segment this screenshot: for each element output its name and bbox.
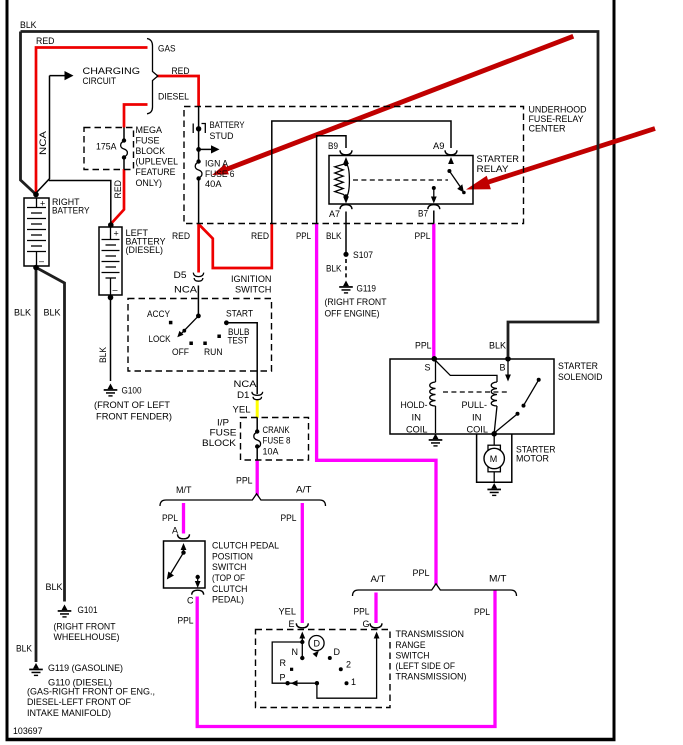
svg-text:DIESEL-LEFT FRONT OF: DIESEL-LEFT FRONT OF — [27, 697, 131, 707]
wire relay B7 stub below cup — [433, 211, 435, 224]
wire battery stud to IGN A fuse to box edge — [198, 107, 200, 161]
solenoid switch lever — [494, 378, 541, 433]
wire PPL relay B9 coil feed long run to brace 2 apex — [317, 224, 436, 586]
svg-text:175A: 175A — [96, 142, 117, 152]
relay coil — [335, 157, 350, 204]
svg-text:D1: D1 — [237, 390, 250, 400]
node pull-in coil / motor junction — [491, 431, 497, 437]
svg-text:LOCK: LOCK — [149, 334, 171, 344]
svg-text:BLK: BLK — [20, 20, 37, 30]
svg-text:B: B — [500, 363, 506, 373]
svg-text:BATTERY: BATTERY — [52, 206, 90, 216]
svg-text:103697: 103697 — [13, 726, 43, 736]
svg-text:NCA: NCA — [234, 379, 257, 389]
svg-text:BLK: BLK — [489, 341, 506, 351]
ground G100 — [104, 384, 118, 397]
svg-text:PPL: PPL — [296, 231, 311, 241]
right battery — [24, 192, 49, 271]
svg-text:CHARGING: CHARGING — [83, 66, 141, 76]
wire BLK left battery negative to G100 — [110, 298, 112, 382]
wire relay B9 feed — [317, 136, 346, 224]
wire RED top left riser and run to GAS brace — [36, 48, 148, 194]
wire PPL clutch switch C bottom run to brace 2 M/T leg — [197, 591, 495, 727]
svg-text:RED: RED — [172, 66, 190, 76]
svg-text:RED: RED — [251, 231, 269, 241]
mega fuse 175A element — [121, 128, 128, 170]
svg-text:YEL: YEL — [279, 607, 297, 617]
svg-text:B7: B7 — [418, 209, 428, 219]
clutch switch internals — [167, 543, 201, 588]
svg-text:G119 (GASOLINE): G119 (GASOLINE) — [48, 663, 123, 673]
wire NCA ignition switch input — [197, 286, 199, 316]
svg-text:PPL: PPL — [415, 231, 431, 241]
svg-text:(DIESEL): (DIESEL) — [126, 245, 164, 255]
svg-text:START: START — [226, 309, 253, 319]
svg-text:MEGA: MEGA — [136, 125, 163, 135]
svg-text:TRANSMISSION): TRANSMISSION) — [396, 672, 467, 682]
svg-text:40A: 40A — [205, 179, 222, 189]
svg-text:BLOCK: BLOCK — [136, 146, 166, 156]
transmission range switch dashed box — [256, 630, 391, 708]
wire BLK heavy branch to G101 — [37, 268, 65, 602]
branch arrow from battery stud node — [196, 145, 219, 153]
wire RED mega fuse to left battery positive — [111, 169, 124, 224]
svg-text:FUSE-RELAY: FUSE-RELAY — [529, 114, 584, 124]
svg-text:NCA: NCA — [174, 285, 197, 295]
svg-text:P: P — [280, 673, 286, 683]
svg-text:TRANSMISSION: TRANSMISSION — [396, 629, 465, 639]
range switch internals — [272, 632, 379, 699]
svg-text:R: R — [280, 658, 287, 668]
range switch terminal G — [370, 623, 382, 628]
svg-text:PPL: PPL — [236, 476, 253, 486]
svg-text:RED: RED — [113, 180, 123, 199]
svg-text:BLK: BLK — [326, 231, 342, 241]
range switch terminal E — [296, 623, 308, 628]
wire RED brace apex to battery stud entry — [157, 76, 199, 107]
svg-text:–: – — [113, 285, 118, 295]
svg-text:ONLY): ONLY) — [136, 178, 163, 188]
svg-text:STARTER: STARTER — [558, 361, 598, 371]
svg-text:CIRCUIT: CIRCUIT — [83, 76, 117, 86]
svg-text:(RIGHT FRONT: (RIGHT FRONT — [54, 622, 116, 632]
svg-text:BLOCK: BLOCK — [202, 438, 236, 448]
svg-text:A/T: A/T — [371, 574, 387, 584]
svg-text:RED: RED — [36, 36, 55, 46]
svg-text:(RIGHT FRONT: (RIGHT FRONT — [325, 297, 387, 307]
svg-text:A/T: A/T — [296, 485, 312, 495]
starter motor frame — [477, 434, 512, 482]
charging circuit arrow — [50, 71, 74, 80]
relay terminal A9 — [445, 150, 457, 155]
svg-text:BLK: BLK — [44, 308, 61, 318]
svg-text:WHEELHOUSE): WHEELHOUSE) — [54, 632, 120, 642]
svg-text:SWITCH: SWITCH — [235, 285, 272, 295]
left battery — [99, 222, 122, 300]
svg-text:CENTER: CENTER — [529, 124, 566, 134]
svg-text:2: 2 — [346, 660, 351, 670]
frame border right — [613, 0, 616, 741]
svg-text:IN: IN — [472, 413, 482, 423]
relay terminal A7 — [340, 205, 352, 210]
svg-text:D: D — [314, 639, 321, 649]
svg-text:B9: B9 — [328, 141, 338, 151]
wire YEL connector D1 to I/P fuse block — [256, 399, 259, 418]
svg-text:INTAKE MANIFOLD): INTAKE MANIFOLD) — [27, 708, 111, 718]
svg-text:TEST: TEST — [228, 336, 249, 346]
svg-text:1: 1 — [351, 677, 356, 687]
svg-text:G119: G119 — [357, 284, 377, 294]
mega fuse block dashed box — [84, 128, 134, 170]
svg-text:I/P: I/P — [217, 418, 229, 428]
svg-text:PPL: PPL — [415, 341, 432, 351]
ground G119 right front off engine — [339, 281, 353, 294]
ground G101 — [58, 605, 72, 618]
svg-text:–: – — [39, 256, 44, 266]
svg-text:FUSE: FUSE — [136, 136, 160, 146]
wire PPL brace 1 A/T leg to range switch E — [301, 503, 304, 623]
svg-text:M: M — [490, 454, 498, 464]
svg-text:M/T: M/T — [176, 485, 192, 495]
underhood fuse-relay center dashed box — [184, 107, 524, 224]
svg-text:RELAY: RELAY — [477, 164, 509, 174]
relay linkage dashed line — [353, 179, 448, 181]
svg-text:BLK: BLK — [16, 644, 32, 654]
svg-text:HOLD-: HOLD- — [401, 400, 428, 410]
ignition switch contacts and lever — [169, 314, 229, 346]
svg-text:PEDAL): PEDAL) — [212, 595, 244, 605]
svg-text:FUSE 6: FUSE 6 — [205, 169, 235, 179]
svg-text:STARTER: STARTER — [477, 154, 520, 164]
node S — [432, 356, 438, 362]
svg-text:10A: 10A — [263, 447, 279, 457]
wire RED DIESEL arm to mega fuse block — [124, 105, 148, 128]
battery stud symbol — [193, 124, 205, 134]
svg-text:PPL: PPL — [162, 513, 178, 523]
svg-text:S107: S107 — [353, 250, 373, 260]
svg-text:N: N — [292, 647, 299, 657]
fuse CRANK FUSE 8 10A — [254, 418, 261, 460]
svg-text:(FRONT OF LEFT: (FRONT OF LEFT — [94, 400, 171, 410]
wire START output to D1 — [226, 323, 257, 394]
connector D1 — [252, 392, 263, 400]
svg-text:PPL: PPL — [474, 607, 490, 617]
connector D5 — [193, 273, 203, 282]
svg-text:RED: RED — [172, 231, 190, 241]
svg-text:D: D — [334, 647, 341, 657]
svg-text:FUSE: FUSE — [210, 428, 237, 438]
svg-text:+: + — [40, 199, 45, 209]
GAS/DIESEL brace — [147, 39, 158, 114]
svg-text:A: A — [172, 526, 178, 536]
svg-text:CLUTCH: CLUTCH — [212, 584, 248, 594]
solenoid B contact stub — [505, 359, 511, 382]
svg-text:MOTOR: MOTOR — [516, 454, 549, 464]
relay terminal B7 — [428, 205, 440, 210]
svg-text:(UPLEVEL: (UPLEVEL — [136, 157, 179, 167]
wire BLK heavy left drop to right battery — [21, 32, 36, 195]
svg-text:BATTERY: BATTERY — [210, 120, 245, 130]
svg-text:IGNITION: IGNITION — [231, 274, 272, 284]
svg-text:COIL: COIL — [467, 425, 489, 435]
svg-text:PPL: PPL — [413, 568, 430, 578]
svg-text:CLUTCH PEDAL: CLUTCH PEDAL — [212, 541, 279, 551]
wire RED battery feed jog to relay A9 branch — [200, 224, 272, 269]
fuse IGN A FUSE 6 40A — [195, 159, 202, 180]
svg-text:FEATURE: FEATURE — [136, 167, 176, 177]
svg-text:YEL: YEL — [233, 405, 251, 415]
starter solenoid box — [390, 359, 554, 434]
svg-text:PPL: PPL — [354, 607, 370, 617]
solenoid linkage dashed line — [443, 391, 508, 393]
svg-text:PULL-: PULL- — [462, 400, 488, 410]
wire PPL brace 2 A/T leg to range switch G — [374, 593, 377, 624]
clutch pedal position switch box — [164, 541, 206, 588]
svg-text:IGN A: IGN A — [205, 159, 228, 169]
starter relay box — [329, 156, 473, 205]
svg-text:UNDERHOOD: UNDERHOOD — [529, 105, 587, 115]
relay terminal B9 — [340, 150, 352, 155]
svg-text:SWITCH: SWITCH — [212, 562, 247, 572]
solenoid S to pull-in coil link — [435, 360, 498, 383]
svg-text:ACCY: ACCY — [147, 309, 170, 319]
hold-in coil ground — [429, 434, 443, 447]
svg-text:+: + — [114, 229, 119, 239]
svg-text:BLK: BLK — [14, 308, 31, 318]
annotation arrow 1 — [212, 36, 573, 175]
svg-text:E: E — [289, 619, 295, 629]
svg-text:A9: A9 — [433, 141, 445, 151]
svg-text:A7: A7 — [329, 209, 340, 219]
svg-text:G101: G101 — [78, 605, 98, 615]
pull-in coil — [491, 382, 497, 433]
svg-text:PPL: PPL — [281, 513, 297, 523]
svg-text:S: S — [425, 363, 431, 373]
svg-text:(GAS-RIGHT FRONT OF ENG.,: (GAS-RIGHT FRONT OF ENG., — [27, 687, 155, 697]
svg-text:G100: G100 — [122, 386, 142, 396]
relay switch contacts — [431, 157, 466, 204]
wire PPL crank fuse output to brace 1 apex — [256, 460, 259, 496]
ground G119/G110 bottom left — [29, 663, 43, 676]
svg-text:BLK: BLK — [326, 264, 342, 274]
svg-text:STUD: STUD — [210, 131, 234, 141]
clutch switch terminal A — [178, 534, 190, 539]
ignition switch dashed box — [128, 299, 272, 372]
svg-text:GAS: GAS — [158, 44, 176, 54]
wire relay A9 feed — [272, 121, 451, 224]
clutch switch terminal C — [192, 590, 204, 595]
I/P fuse block dashed box — [241, 418, 309, 461]
svg-text:NCA: NCA — [38, 131, 48, 155]
frame border bottom — [6, 738, 616, 742]
wire BLK heavy right battery negative down to G119 — [35, 267, 38, 662]
wire BLK dashed S107 to G119 — [345, 259, 347, 280]
wire RED ign fuse output to connector D5 — [197, 223, 200, 273]
svg-text:SOLENOID: SOLENOID — [558, 372, 603, 382]
splice S107 — [343, 252, 348, 257]
svg-text:M/T: M/T — [489, 574, 507, 584]
svg-text:FRONT FENDER): FRONT FENDER) — [96, 412, 172, 422]
svg-text:RANGE: RANGE — [396, 640, 426, 650]
svg-text:OFF ENGINE): OFF ENGINE) — [325, 309, 380, 319]
wire BLK heavy battery cable top run to solenoid B — [21, 32, 599, 357]
svg-text:(LEFT SIDE OF: (LEFT SIDE OF — [396, 661, 456, 671]
svg-text:FUSE 8: FUSE 8 — [263, 436, 291, 446]
svg-text:SWITCH: SWITCH — [396, 651, 430, 661]
starter motor ground — [487, 483, 501, 496]
svg-text:DIESEL: DIESEL — [158, 92, 189, 102]
wire PPL relay B7 to starter solenoid S — [432, 224, 435, 358]
svg-text:POSITION: POSITION — [212, 552, 253, 562]
svg-text:(TOP OF: (TOP OF — [212, 573, 245, 583]
brace 2 A/T M/T split — [353, 584, 517, 596]
hold-in coil — [430, 360, 436, 434]
annotation arrow 2 — [466, 129, 655, 190]
wire PPL brace 1 M/T leg to clutch switch A — [182, 503, 185, 534]
node B — [505, 356, 511, 362]
wire relay A7 BLK to splice S107 — [345, 212, 347, 255]
svg-text:PPL: PPL — [178, 616, 194, 626]
svg-text:IN: IN — [412, 413, 422, 423]
svg-text:RUN: RUN — [204, 347, 223, 357]
svg-text:D5: D5 — [174, 270, 187, 280]
svg-text:OFF: OFF — [172, 347, 189, 357]
svg-text:G: G — [363, 619, 370, 629]
svg-text:BLK: BLK — [98, 347, 108, 363]
svg-text:COIL: COIL — [406, 425, 428, 435]
wire NCA charging circuit riser — [37, 76, 50, 193]
svg-text:C: C — [187, 596, 194, 606]
brace 1 M/T A/T split — [160, 494, 326, 506]
wire to left battery positive — [49, 181, 111, 225]
svg-text:CRANK: CRANK — [263, 425, 290, 435]
svg-text:BLK: BLK — [46, 582, 63, 592]
frame border left — [6, 0, 9, 741]
